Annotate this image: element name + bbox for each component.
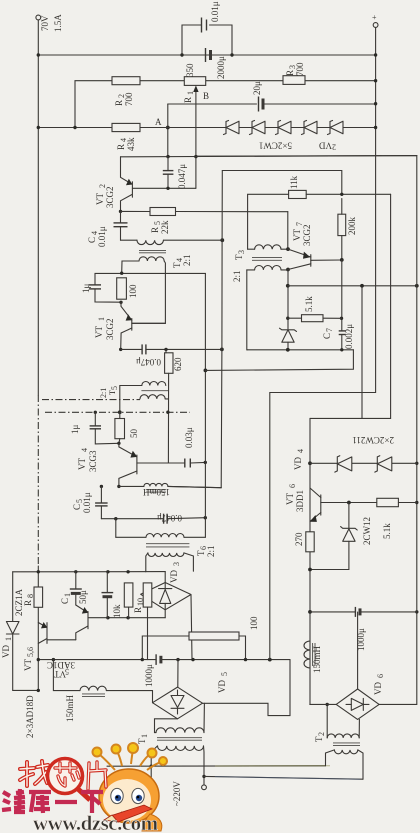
svg-text:4: 4 — [296, 449, 305, 453]
svg-text:VT: VT — [285, 493, 295, 505]
wire mains pair to T2 — [107, 765, 326, 767]
svg-text:R: R — [23, 600, 33, 606]
wire T3 bottom left drop — [246, 270, 249, 350]
transformer T5 shielded — [99, 382, 168, 413]
svg-text:5×2CW1: 5×2CW1 — [259, 141, 292, 151]
wire y273 line — [95, 273, 205, 285]
svg-text:VT: VT — [77, 458, 87, 470]
mascot antennae — [93, 743, 168, 770]
svg-text:1000μ: 1000μ — [144, 664, 154, 687]
capacitor 0.047u VT2 — [163, 157, 187, 189]
wire rail drop to bus — [270, 393, 376, 660]
svg-text:2: 2 — [317, 732, 326, 736]
resistor 5.1k reg — [377, 498, 417, 539]
svg-text:3CG3: 3CG3 — [88, 450, 98, 472]
svg-text:150mH: 150mH — [65, 694, 75, 722]
terminal right output — [373, 23, 378, 28]
node rail-1000u — [415, 610, 418, 613]
svg-text:150mH: 150mH — [142, 487, 170, 497]
node rail-top — [37, 53, 40, 56]
wire output line y611 + capacitor 1000u reg — [308, 607, 417, 651]
transformer T4 — [121, 240, 223, 323]
resistor 10k — [112, 583, 133, 619]
transistor VT6 3DD1 — [285, 484, 377, 522]
transistor VT7 3CG2 — [286, 222, 342, 271]
svg-text:R: R — [116, 144, 126, 150]
svg-text:5,6: 5,6 — [26, 647, 35, 657]
svg-text:VT: VT — [95, 193, 105, 205]
svg-text:11k: 11k — [289, 175, 299, 189]
node VT4 emitter — [117, 442, 120, 445]
mains terminals — [149, 766, 207, 806]
svg-text:VD: VD — [169, 570, 179, 583]
svg-text:8: 8 — [26, 594, 35, 598]
wire VT4 base + 0.03u — [137, 427, 205, 467]
bridge VD3 — [141, 562, 191, 618]
transformer T3 — [232, 245, 288, 282]
transistor VT4 3CG3 — [77, 443, 137, 486]
svg-text:100: 100 — [249, 616, 259, 630]
svg-text:100: 100 — [128, 284, 138, 298]
capacitor 1u VT1 — [81, 284, 121, 303]
mascot eyes — [111, 788, 123, 803]
svg-text:5: 5 — [65, 667, 69, 676]
capacitor C5 0.01u — [72, 486, 108, 518]
svg-text:270: 270 — [294, 532, 304, 546]
svg-text:VT: VT — [23, 659, 33, 671]
svg-text:C: C — [72, 504, 82, 510]
node T4 top right — [220, 238, 224, 242]
bridge VD6 — [336, 674, 385, 719]
svg-text:R: R — [150, 227, 160, 233]
transformer T1 — [137, 703, 204, 776]
svg-text:5: 5 — [110, 386, 119, 390]
wire 20u line y104 — [168, 103, 257, 105]
svg-text:0.047μ: 0.047μ — [177, 164, 187, 189]
svg-text:1: 1 — [140, 734, 149, 738]
svg-text:1000μ: 1000μ — [356, 628, 366, 651]
wire x362 link — [361, 286, 363, 419]
svg-text:~220V: ~220V — [172, 781, 182, 806]
wire y487 link — [168, 486, 221, 487]
wire VD3 bottom to base line — [88, 617, 165, 619]
svg-text:www.dzsc.com: www.dzsc.com — [33, 811, 159, 833]
node rail-VD4 — [415, 462, 418, 465]
svg-text:3DD1: 3DD1 — [295, 490, 305, 512]
resistor 270 — [294, 532, 314, 552]
node A — [166, 126, 170, 130]
capacitor 0.047u VT1 — [136, 344, 161, 367]
wire top bus y55 — [38, 54, 375, 56]
resistor 11k — [248, 175, 391, 249]
svg-text:C: C — [87, 237, 97, 243]
svg-text:10: 10 — [136, 598, 145, 606]
svg-text:2CW12: 2CW12 — [362, 517, 372, 545]
label 70V 1.5A — [40, 14, 63, 32]
inductor 150mH osc — [119, 483, 221, 497]
capacitor 0.01u top loop — [180, 1, 233, 56]
svg-text:6: 6 — [288, 484, 297, 488]
wire x288 collector drop — [287, 270, 289, 330]
wire bus y80 — [75, 81, 112, 128]
svg-text:43k: 43k — [126, 137, 136, 151]
resistor R3 700 — [283, 62, 305, 84]
svg-text:R: R — [183, 97, 193, 103]
wire VD3 right down — [191, 595, 192, 659]
svg-text:2×3AD18D: 2×3AD18D — [25, 695, 35, 738]
resistor 5.1k osc — [288, 296, 342, 322]
wire y349 — [121, 348, 142, 350]
svg-text:0.03μ: 0.03μ — [184, 427, 194, 448]
inductor 150mH mains filter — [53, 660, 152, 722]
node 620 top — [164, 348, 167, 351]
inductor 150mH reg — [304, 641, 322, 673]
wire y518 line + 0.047u — [101, 513, 205, 524]
transistor VT5 driver 3AD1C — [23, 605, 88, 679]
diodes VD2 5x2CW1 — [224, 121, 344, 152]
wire left rail lower — [37, 566, 39, 690]
wire to VT7 emitter — [287, 212, 289, 249]
svg-text:R: R — [285, 70, 295, 76]
wire node A vertical — [167, 104, 169, 156]
zener diode osc — [280, 328, 297, 350]
svg-text:5.1k: 5.1k — [304, 296, 314, 312]
svg-text:700: 700 — [295, 62, 305, 76]
resistor 50 — [115, 412, 139, 443]
wire output bus y659 — [38, 659, 156, 661]
wire VD5 right corner path — [203, 660, 291, 716]
svg-text:VD: VD — [217, 680, 227, 693]
svg-text:2:1: 2:1 — [99, 388, 108, 398]
svg-text:3AD1C: 3AD1C — [47, 660, 75, 670]
svg-text:2: 2 — [332, 143, 336, 152]
shield dashdot lines — [42, 400, 190, 415]
wire VT2 base line — [132, 187, 196, 189]
node VT1 emitter — [119, 301, 122, 304]
svg-text:R: R — [133, 607, 143, 613]
wire osc bottom y349 — [247, 349, 353, 351]
wire long vertical mid — [221, 171, 223, 241]
svg-text:+: + — [372, 13, 377, 22]
svg-text:3: 3 — [237, 250, 246, 254]
wire VD6 right to rail — [379, 703, 417, 705]
svg-text:B: B — [203, 91, 209, 101]
node rail-5.1k — [415, 501, 418, 504]
svg-text:R: R — [114, 100, 124, 106]
wire VT1 base — [132, 322, 166, 324]
svg-text:VT: VT — [292, 229, 302, 241]
wire y370 link — [205, 350, 353, 371]
svg-text:VD: VD — [1, 645, 11, 658]
node VT2 collector — [119, 210, 122, 213]
svg-text:2:1: 2:1 — [232, 270, 242, 282]
resistor R10 — [133, 583, 152, 660]
svg-text:1μ: 1μ — [81, 284, 91, 294]
wire 620 to T5 — [167, 373, 169, 463]
svg-text:6: 6 — [376, 674, 385, 678]
svg-text:70V: 70V — [40, 15, 50, 31]
wiper arm node B — [193, 85, 198, 188]
resistor 200k — [338, 199, 357, 260]
watermark logo zhao-xin-pian strokes — [20, 761, 48, 786]
svg-text:7: 7 — [325, 328, 334, 332]
resistor R8 series — [23, 587, 43, 607]
resistor R4 43k — [112, 123, 140, 151]
svg-text:0.047μ: 0.047μ — [157, 513, 182, 523]
svg-text:3CG2: 3CG2 — [105, 186, 115, 208]
mascot head — [99, 769, 159, 823]
svg-text:A: A — [155, 117, 162, 127]
tint scan artifact — [215, 765, 330, 767]
wire vertical feedback x205 — [204, 273, 206, 537]
wire emitter line y156 — [121, 156, 417, 157]
mascot pencil arm — [110, 805, 152, 822]
capacitor C1 50u — [60, 572, 88, 605]
svg-text:22k: 22k — [160, 220, 170, 234]
wire left rail dashdot section — [37, 395, 39, 566]
wire regulator top y418 — [309, 418, 311, 704]
svg-text:3: 3 — [172, 562, 181, 566]
node VT1 collector — [119, 348, 122, 351]
svg-text:2:1: 2:1 — [206, 545, 216, 557]
svg-text:1: 1 — [4, 637, 13, 641]
svg-text:3CG2: 3CG2 — [105, 318, 115, 340]
mascot body — [142, 814, 162, 831]
wire right edge rail — [196, 156, 417, 705]
svg-text:VD: VD — [373, 682, 383, 695]
bridge VD5 — [153, 672, 230, 719]
svg-text:150mH: 150mH — [312, 645, 322, 673]
transformer T6 — [116, 519, 216, 572]
svg-text:50μ: 50μ — [78, 590, 88, 604]
wire VD5 top to bus — [177, 660, 179, 688]
wire R5 line y211 — [121, 210, 151, 212]
resistor R2 700 — [112, 77, 140, 106]
svg-text:20μ: 20μ — [252, 81, 262, 95]
node VT4 collector — [117, 485, 120, 488]
svg-text:5.1k: 5.1k — [382, 523, 392, 539]
transistor VT1 3CG2 — [94, 302, 132, 349]
capacitor 1u VT4 — [70, 412, 119, 444]
resistor 100 VT1 — [117, 278, 138, 299]
svg-text:10k: 10k — [112, 604, 122, 618]
svg-text:3CG2: 3CG2 — [302, 224, 312, 246]
wire x341 base drop — [341, 260, 343, 331]
capacitor 1000u output — [144, 654, 161, 687]
diode VD1 2CZ1A — [1, 572, 38, 691]
wire left rail top — [37, 20, 39, 395]
diodes VD4 2x2CW211 — [293, 435, 417, 472]
svg-text:0.01μ: 0.01μ — [82, 492, 92, 513]
wire main rail — [375, 28, 377, 393]
wire VD6 left line — [310, 703, 336, 705]
svg-text:2×2CW211: 2×2CW211 — [352, 435, 394, 445]
svg-text:1μ: 1μ — [70, 425, 80, 435]
svg-text:50: 50 — [129, 429, 139, 439]
capacitor C4 0.01u — [87, 211, 128, 247]
resistor R1 350 potentiometer — [183, 63, 209, 103]
resistor R5 22k — [150, 208, 176, 235]
svg-text:1.5A: 1.5A — [53, 14, 63, 32]
svg-text:C: C — [60, 598, 70, 604]
wire y285 line — [288, 285, 417, 287]
capacitor C7 0.002u — [322, 324, 354, 350]
svg-text:0.047μ: 0.047μ — [136, 357, 161, 367]
resistor 100 feedback — [142, 616, 259, 660]
resistor 620 — [165, 349, 183, 373]
transistor VT2 3CG2 — [95, 157, 133, 212]
svg-text:0.01μ: 0.01μ — [210, 1, 220, 22]
wire VD5 bottom to T1 — [155, 719, 178, 729]
svg-text:620: 620 — [173, 357, 183, 371]
svg-text:0.002μ: 0.002μ — [344, 324, 354, 349]
watermark group — [2, 743, 167, 833]
capacitor base filter — [102, 572, 114, 619]
wire bias line y127 — [38, 127, 112, 129]
wire VD5 left lead — [152, 691, 154, 703]
svg-text:2:1: 2:1 — [182, 254, 192, 266]
svg-text:VD: VD — [319, 141, 332, 151]
svg-text:VT: VT — [54, 669, 66, 679]
transistor VT6 pass 2x3AD18D — [25, 622, 76, 738]
wire x390 drop — [310, 194, 391, 418]
transformer T2 — [314, 704, 363, 779]
svg-text:700: 700 — [124, 92, 134, 106]
svg-text:VD: VD — [293, 457, 303, 470]
zener 2CW12 — [310, 503, 372, 570]
watermark wei-ku-yi-xia strokes — [2, 789, 103, 813]
node bus55-right — [374, 53, 377, 56]
svg-text:C: C — [322, 333, 332, 339]
svg-text:2000μ: 2000μ — [216, 56, 226, 79]
svg-text:5: 5 — [220, 672, 229, 676]
terminal left output — [36, 15, 41, 20]
svg-text:1: 1 — [63, 593, 72, 597]
wire y571 line — [13, 571, 166, 573]
wire VD6 top corner up — [357, 612, 359, 689]
capacitor 2000u inline on bus — [206, 48, 227, 79]
svg-text:200k: 200k — [347, 217, 357, 236]
svg-text:350: 350 — [185, 63, 195, 77]
svg-text:VT: VT — [94, 326, 104, 338]
capacitor 20u — [252, 81, 263, 112]
wire y170 top link — [222, 171, 341, 195]
svg-text:0.01μ: 0.01μ — [97, 226, 107, 247]
